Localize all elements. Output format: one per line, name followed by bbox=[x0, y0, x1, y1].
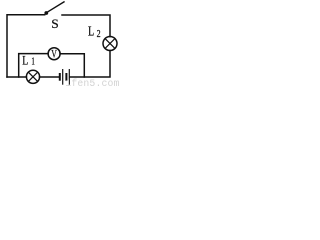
svg-text:2: 2 bbox=[97, 28, 101, 39]
svg-text:S: S bbox=[51, 17, 59, 31]
svg-text:1: 1 bbox=[31, 55, 34, 67]
svg-text:L: L bbox=[22, 54, 28, 68]
svg-text:1fen5.com: 1fen5.com bbox=[65, 78, 119, 87]
svg-text:L: L bbox=[88, 23, 94, 39]
svg-text:V: V bbox=[51, 48, 57, 61]
